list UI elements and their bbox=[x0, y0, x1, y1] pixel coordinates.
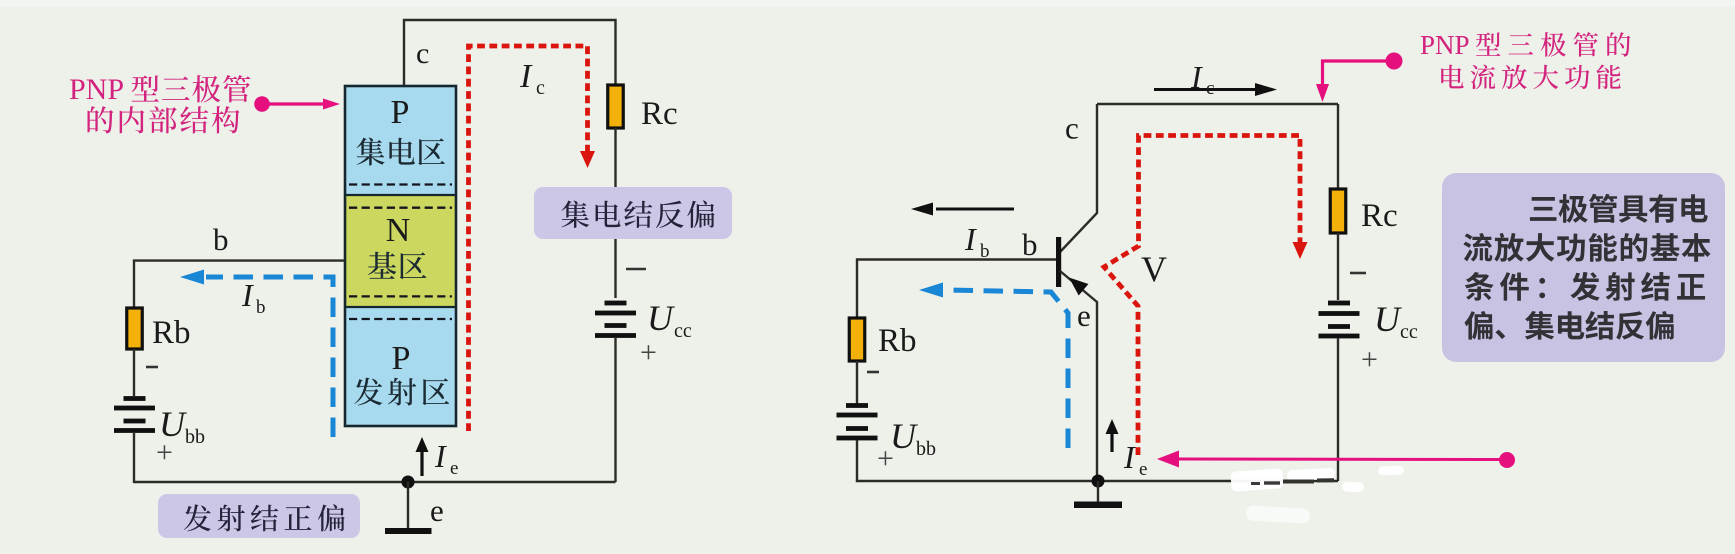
wire: Ubb to bottom (left) bbox=[133, 432, 135, 483]
white scribble patches (erased watermark) with wire dash remnants bbox=[1230, 466, 1404, 524]
blue dashed current path Ib (left circuit) bbox=[180, 270, 333, 438]
svg-text:U: U bbox=[1374, 299, 1402, 339]
battery Ucc (right) bbox=[1319, 301, 1360, 339]
battery Ucc (left) bbox=[595, 301, 636, 338]
junction dashed line (collector side, in P region) bbox=[349, 183, 452, 185]
wire: Rb to Ubb (right) bbox=[856, 361, 858, 404]
wire: top to Rc (right) bbox=[1337, 104, 1339, 190]
svg-text:Rc: Rc bbox=[641, 96, 678, 132]
transistor V: base bar bbox=[1056, 237, 1061, 287]
wire: Rb to Ubb (left) bbox=[133, 349, 135, 396]
blue dashed current path Ib (right circuit) bbox=[919, 283, 1068, 449]
wire: Rc to Ucc (left circuit) bbox=[614, 128, 616, 298]
label P (emitter region) bbox=[392, 340, 411, 377]
junction dashed line (base bottom, in N region) bbox=[349, 295, 452, 297]
junction node (right emitter) bbox=[1092, 475, 1105, 488]
label N (base region) bbox=[386, 212, 411, 249]
plus sign Ucc (left) bbox=[640, 336, 657, 369]
junction node e (left) bbox=[402, 476, 415, 489]
label 集电区 bbox=[356, 138, 444, 166]
label P (collector region) bbox=[391, 94, 410, 131]
arrow Ie (right) bbox=[1106, 419, 1119, 452]
svg-text:c: c bbox=[1206, 78, 1214, 99]
junction dashed line (emitter side, in P region) bbox=[349, 318, 452, 320]
callout box 集电结反偏 bbox=[534, 187, 732, 239]
svg-text:V: V bbox=[1141, 249, 1167, 289]
wire: Ucc to bottom (right) bbox=[1337, 338, 1339, 481]
wire: Ubb to bottom (right) bbox=[856, 440, 858, 482]
label Ic (left) bbox=[519, 58, 545, 99]
plus sign Ubb (right) bbox=[877, 442, 894, 475]
label Rc (right) bbox=[1361, 198, 1398, 234]
annotation pointer (right top): dot, line, arrow bbox=[1316, 53, 1403, 103]
svg-text:e: e bbox=[1139, 459, 1147, 480]
label Ie (right) bbox=[1123, 439, 1147, 480]
wire: base rail (right circuit) bbox=[857, 260, 1056, 320]
emitter stub and terminal bar bbox=[385, 482, 432, 534]
svg-text:c: c bbox=[536, 77, 545, 99]
arrow Ib (right) bbox=[911, 203, 1014, 216]
svg-text:I: I bbox=[1123, 439, 1136, 475]
plus sign Ubb (left) bbox=[156, 436, 173, 469]
annotation text PNP型三极管的内部结构 bbox=[69, 73, 250, 133]
wire: Ucc to bottom (left circuit) bbox=[614, 337, 616, 482]
wire: collector top wire (left circuit) bbox=[404, 20, 616, 87]
label Ubb (right) bbox=[890, 416, 936, 460]
svg-text:I: I bbox=[241, 277, 254, 313]
label Ic (right) bbox=[1190, 59, 1214, 99]
svg-text:e: e bbox=[1077, 298, 1091, 333]
plus sign Ucc (right) bbox=[1361, 343, 1378, 376]
minus sign Ucc (left) bbox=[626, 268, 646, 271]
svg-text:cc: cc bbox=[674, 320, 692, 342]
label 基区 bbox=[368, 252, 426, 279]
svg-text:I: I bbox=[964, 221, 977, 257]
svg-text:+: + bbox=[640, 336, 657, 369]
label c (right) bbox=[1065, 111, 1079, 146]
label 发射区 bbox=[354, 378, 449, 406]
label e (left) bbox=[430, 493, 444, 528]
minus sign Rb (right) bbox=[867, 371, 879, 374]
svg-text:b: b bbox=[1022, 227, 1038, 262]
label Ucc (left) bbox=[647, 298, 692, 342]
svg-text:I: I bbox=[1190, 59, 1203, 95]
label Ie (left) bbox=[434, 438, 458, 479]
svg-text:b: b bbox=[980, 241, 990, 262]
red dotted current path Ic (right circuit) bbox=[1104, 136, 1308, 456]
label e (right) bbox=[1077, 298, 1091, 333]
svg-text:e: e bbox=[450, 458, 458, 479]
label Ubb (left) bbox=[159, 404, 205, 448]
svg-text:N: N bbox=[386, 212, 411, 249]
svg-text:P: P bbox=[391, 94, 410, 131]
ground symbol (right) bbox=[1074, 481, 1122, 508]
battery Ubb (right) bbox=[837, 403, 878, 440]
svg-text:bb: bb bbox=[185, 426, 205, 448]
svg-text:U: U bbox=[890, 416, 918, 456]
callout box 发射结正偏 bbox=[158, 494, 360, 538]
svg-text:PNP: PNP bbox=[69, 73, 124, 106]
annotation long arrow to Ie bbox=[1157, 451, 1515, 469]
wire: base rail (left circuit) bbox=[134, 261, 345, 309]
svg-text:c: c bbox=[416, 37, 429, 70]
wire: bottom rail (left circuit) bbox=[134, 481, 616, 483]
label V (transistor) bbox=[1141, 249, 1167, 289]
arrow Ie (left) bbox=[416, 437, 429, 476]
resistor Rc (left) bbox=[608, 85, 624, 128]
svg-text:P: P bbox=[392, 340, 411, 377]
minus sign Rb (left) bbox=[146, 366, 158, 369]
transistor V: emitter lead with arrow bbox=[1060, 271, 1097, 481]
label Rb (right) bbox=[878, 323, 917, 359]
label Rb (left) bbox=[152, 315, 191, 351]
svg-text:e: e bbox=[430, 493, 444, 528]
svg-text:b: b bbox=[256, 297, 266, 318]
svg-text:c: c bbox=[1065, 111, 1079, 146]
minus sign Ucc (right) bbox=[1350, 272, 1366, 275]
svg-text:Rb: Rb bbox=[152, 315, 191, 351]
svg-text:b: b bbox=[213, 222, 229, 257]
svg-text:+: + bbox=[156, 436, 173, 469]
arrow Ic (right) bbox=[1154, 83, 1277, 96]
label b (right) bbox=[1022, 227, 1038, 262]
resistor Rc (right) bbox=[1330, 189, 1346, 233]
transistor V: collector lead bbox=[1060, 104, 1097, 252]
wire: top rail (right circuit) bbox=[1097, 103, 1338, 105]
label Rc (left) bbox=[641, 96, 678, 132]
node c label (left) bbox=[416, 37, 429, 70]
wire: bottom rail (right circuit) bbox=[856, 480, 1338, 482]
svg-text:PNP: PNP bbox=[1420, 30, 1470, 60]
label Ucc (right) bbox=[1374, 299, 1418, 343]
label Ib (right) bbox=[964, 221, 990, 262]
resistor Rb (left) bbox=[127, 308, 143, 349]
svg-text:bb: bb bbox=[916, 438, 936, 460]
transistor structure block (P/N/P regions) bbox=[345, 86, 456, 426]
svg-text:U: U bbox=[647, 298, 675, 338]
wire: Rc to Ucc (right) bbox=[1337, 233, 1339, 300]
svg-text:I: I bbox=[519, 58, 533, 95]
annotation pointer dot and arrow (left) bbox=[254, 96, 340, 112]
svg-text:Rc: Rc bbox=[1361, 198, 1398, 234]
svg-text:I: I bbox=[434, 438, 447, 474]
annotation text PNP型三极管的电流放大功能 bbox=[1420, 30, 1630, 89]
svg-text:cc: cc bbox=[1400, 321, 1418, 343]
svg-text:+: + bbox=[877, 442, 894, 475]
svg-text:Rb: Rb bbox=[878, 323, 917, 359]
label b (left) bbox=[213, 222, 229, 257]
label Ib (left) bbox=[241, 277, 266, 318]
junction dashed line (base top, in N region) bbox=[349, 207, 452, 209]
red dotted current path Ic (left circuit) bbox=[469, 46, 596, 431]
info box 三极管具有电流放大功能的基本条件 bbox=[1442, 173, 1725, 362]
battery Ubb (left) bbox=[114, 396, 155, 433]
resistor Rb (right) bbox=[849, 318, 865, 361]
svg-text:+: + bbox=[1361, 343, 1378, 376]
